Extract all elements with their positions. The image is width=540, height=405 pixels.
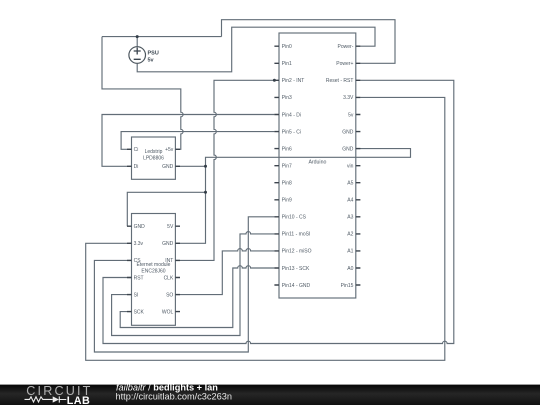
wire Ci net: Arduino Pin5 to Ledstrip Ci — [121, 132, 274, 150]
svg-text:A5: A5 — [347, 181, 353, 187]
svg-text:GND: GND — [342, 146, 354, 152]
svg-text:3.3V: 3.3V — [343, 95, 354, 101]
svg-text:Pin12 - miSO: Pin12 - miSO — [282, 249, 312, 255]
svg-text:Pin6: Pin6 — [282, 146, 292, 152]
svg-text:Pin13 - SCK: Pin13 - SCK — [282, 266, 310, 272]
svg-text:Power+: Power+ — [336, 61, 353, 67]
svg-text:Reset - RST: Reset - RST — [326, 78, 354, 84]
IC Ledstrip LPD8806 — [127, 137, 180, 179]
CircuitLab logo — [25, 384, 91, 405]
junction dot at PSU+ node — [136, 35, 139, 38]
svg-text:+5v: +5v — [165, 147, 174, 153]
svg-text:RST: RST — [134, 275, 144, 281]
svg-text:Ledstrip: Ledstrip — [145, 149, 163, 155]
svg-text:Power-: Power- — [338, 44, 354, 50]
svg-text:A0: A0 — [347, 266, 353, 272]
svg-text:Pin8: Pin8 — [282, 181, 292, 187]
svg-text:Pin1: Pin1 — [282, 61, 292, 67]
svg-text:SI: SI — [134, 292, 139, 298]
wire PSU- to Arduino Power- — [137, 27, 375, 72]
svg-text:Pin5 - Ci: Pin5 - Ci — [282, 129, 301, 135]
svg-text:vin: vin — [347, 164, 354, 170]
wire PSU+ node to Ledstrip +5v — [102, 37, 222, 150]
svg-text:Arduino: Arduino — [308, 159, 326, 165]
wire INT net: Ethernet INT to Arduino Pin2 — [175, 80, 274, 260]
IC Eternet module ENC28J60 — [127, 214, 180, 326]
wire RST net: Arduino Reset to Ethernet RST — [103, 80, 454, 343]
svg-text:Pin9: Pin9 — [282, 198, 292, 204]
junction dot GND trunk at Ethernet branch — [204, 191, 207, 194]
footer url — [116, 392, 232, 402]
svg-text:GND: GND — [162, 164, 174, 170]
svg-text:Pin11 - moSI: Pin11 - moSI — [282, 232, 311, 238]
svg-text:5v: 5v — [148, 58, 155, 64]
svg-text:http://circuitlab.com/c3c263n: http://circuitlab.com/c3c263n — [116, 392, 232, 402]
svg-text:ENC28J60: ENC28J60 — [141, 268, 165, 274]
wire GND net: branch to Ethernet left GND — [127, 192, 205, 226]
svg-text:3.3v: 3.3v — [134, 241, 144, 247]
svg-text:WOL: WOL — [162, 309, 174, 315]
wire SO net: Arduino Pin12 to Ethernet SO — [175, 249, 274, 295]
svg-text:GND: GND — [162, 241, 174, 247]
svg-text:5v: 5v — [348, 112, 354, 118]
svg-text:Di: Di — [134, 164, 139, 170]
wire GND net: Ledstrip GND branch — [175, 165, 205, 167]
wire CS net: Arduino Pin10 to Ethernet CS — [94, 217, 274, 352]
wire Di net: Arduino Pin4 to Ledstrip Di — [102, 115, 274, 167]
svg-text:Eternet module: Eternet module — [137, 262, 171, 268]
junction dot GND trunk at Ledstrip GND — [204, 165, 207, 168]
svg-text:Ci: Ci — [134, 147, 139, 153]
svg-text:GND: GND — [342, 129, 354, 135]
svg-text:Pin15: Pin15 — [341, 283, 354, 289]
svg-text:A1: A1 — [347, 249, 353, 255]
svg-text:GND: GND — [134, 224, 146, 230]
footer bar — [0, 385, 540, 405]
svg-text:Pin14 - GND: Pin14 - GND — [282, 283, 311, 289]
svg-text:Pin10 - CS: Pin10 - CS — [282, 215, 307, 221]
svg-text:5V: 5V — [167, 224, 174, 230]
svg-text:Pin7: Pin7 — [282, 164, 292, 170]
IC Arduino — [274, 33, 360, 298]
wire SCK net: Arduino Pin13 to Ethernet SCK — [120, 266, 274, 328]
svg-text:SO: SO — [166, 292, 173, 298]
voltage source PSU 5v — [129, 37, 159, 64]
junction dot at Arduino Pin2 — [273, 79, 276, 82]
svg-text:A3: A3 — [347, 215, 353, 221]
wire SI net: Arduino Pin11 to Ethernet SI — [112, 232, 275, 336]
wire GND net: Arduino GND to vertical trunk — [175, 149, 410, 244]
svg-text:Pin0: Pin0 — [282, 44, 292, 50]
svg-text:Pin3: Pin3 — [282, 95, 292, 101]
wire 3.3V net: Arduino 3.3V to Ethernet 3.3v — [86, 97, 445, 360]
wire PSU+ to Arduino Power+ — [222, 20, 396, 64]
svg-text:A4: A4 — [347, 198, 353, 204]
svg-text:SCK: SCK — [134, 309, 145, 315]
svg-text:LAB: LAB — [67, 395, 90, 405]
svg-text:CLK: CLK — [164, 275, 174, 281]
svg-text:Pin4 - Di: Pin4 - Di — [282, 112, 301, 118]
svg-text:LPD8806: LPD8806 — [143, 155, 164, 161]
svg-text:A2: A2 — [347, 232, 353, 238]
svg-text:Pin2 - INT: Pin2 - INT — [282, 78, 305, 84]
svg-text:PSU: PSU — [148, 51, 159, 57]
footer title failbaitr / bedlights + lan — [116, 382, 218, 392]
